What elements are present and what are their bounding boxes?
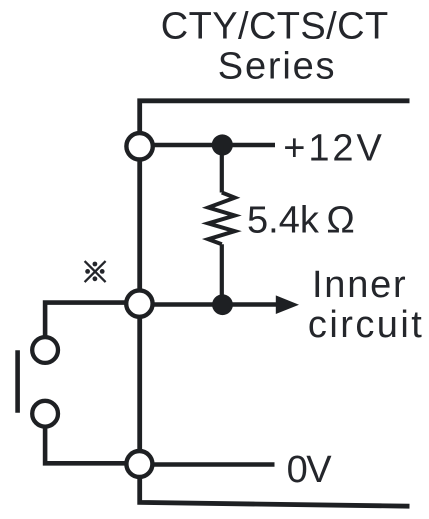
terminal circle: middle (switch common) — [126, 290, 152, 316]
arrow head to inner circuit — [276, 295, 299, 314]
svg-text:circuit: circuit — [308, 304, 424, 346]
wire: +12V branch — [140, 143, 275, 148]
wire: switch upper branch (to left, down to switch) — [45, 303, 140, 350]
wire: resistor lower lead — [220, 244, 224, 305]
svg-text:+12V: +12V — [283, 128, 384, 170]
terminal circle: top (+12V) — [126, 133, 152, 159]
svg-text:Inner: Inner — [312, 264, 407, 306]
reference mark (komejirushi) — [85, 261, 106, 282]
svg-text:Series: Series — [218, 46, 337, 88]
wire: resistor upper lead — [220, 145, 224, 193]
node: junction dot at inner-circuit branch — [212, 294, 233, 315]
resistor 5.4k ohm — [208, 193, 235, 245]
wire: 0V branch — [140, 462, 275, 467]
switch contact circle (lower) — [32, 401, 58, 427]
wire: main bus bracket (top rail, vertical bus, bottom rail) — [140, 101, 410, 506]
wire: inner-circuit branch (arrow shaft) — [140, 302, 278, 307]
svg-text:0V: 0V — [287, 449, 333, 491]
switch actuator bar — [15, 350, 20, 413]
wire: switch lower branch (down, right to 0V terminal) — [45, 414, 140, 464]
switch contact circle (upper) — [32, 337, 58, 363]
label: Inner circuit — [308, 264, 424, 346]
svg-text:CTY/CTS/CT: CTY/CTS/CT — [161, 5, 389, 47]
terminal circle: bottom (0V) — [126, 451, 152, 477]
node: junction dot at +12V / resistor — [212, 134, 233, 155]
title CTY/CTS/CT Series — [161, 5, 389, 87]
svg-text:5.4k Ω: 5.4k Ω — [247, 200, 355, 242]
